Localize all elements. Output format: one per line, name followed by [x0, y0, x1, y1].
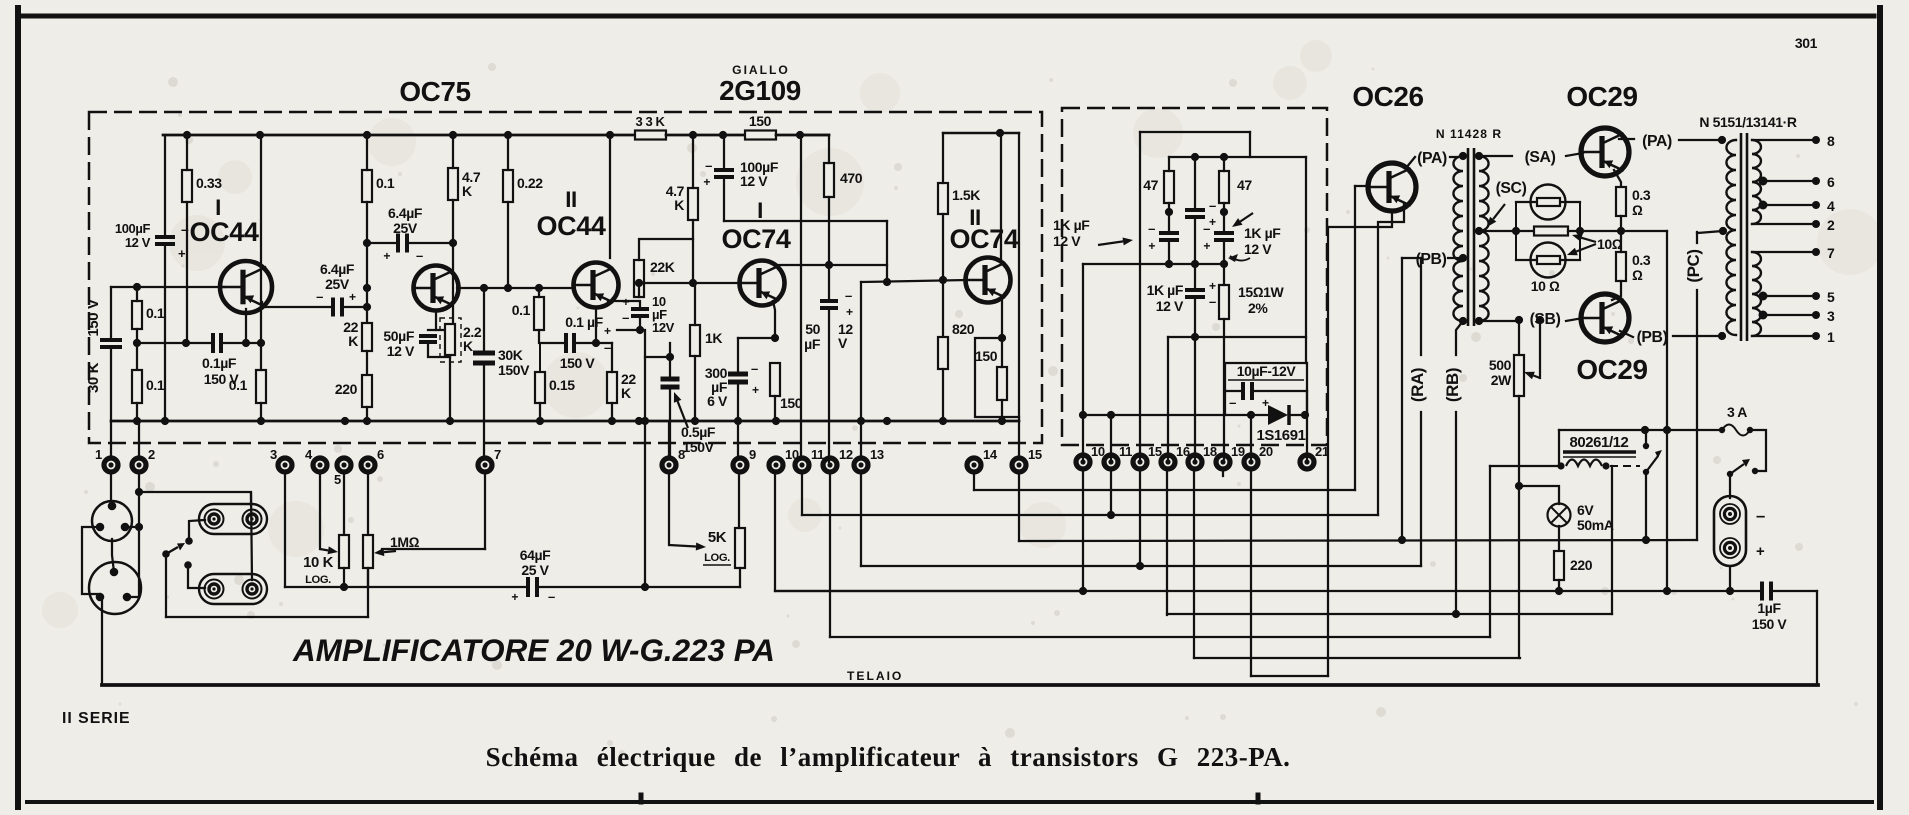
- potentiometer 5K LOG: [735, 528, 745, 568]
- junction dots on bottom rail: [133, 417, 1006, 425]
- wire t21 col: [1306, 391, 1308, 459]
- svg-text:2: 2: [1827, 217, 1835, 233]
- capacitor 6.4uF 25V coupling 1: [333, 298, 342, 317]
- capacitor 0.1uF 150V (OC44II): [566, 333, 574, 353]
- wire capA top: [1194, 157, 1196, 210]
- terminal 16: [1161, 444, 1190, 469]
- svg-text:–: –: [1203, 221, 1210, 236]
- resistor 0.1 third (stage1 right): [256, 370, 266, 403]
- wire t11 column up: [800, 135, 802, 459]
- wire 1K bottom: [694, 356, 696, 421]
- svg-text:LOG.: LOG.: [305, 574, 331, 586]
- svg-text:0.5µF: 0.5µF: [681, 424, 716, 440]
- resistor 220 lamp: [1554, 551, 1564, 580]
- wire switch pivot down: [165, 557, 167, 617]
- wire 100uF bottom to lower rail: [164, 245, 166, 421]
- svg-text:14: 14: [983, 447, 998, 462]
- wire 1K top: [694, 283, 696, 325]
- wire input base: [111, 286, 224, 288]
- wire OC44II collector column: [609, 135, 611, 258]
- svg-text:30 K: 30 K: [85, 362, 102, 393]
- wire 0.5uF link: [645, 356, 670, 358]
- wire OC44 I collector out: [262, 302, 333, 307]
- resistor 2.2K (OC75): [445, 324, 455, 355]
- resistor 0.3 upper: [1616, 187, 1626, 216]
- svg-text:1K: 1K: [705, 330, 722, 346]
- mains switch 1: [1643, 443, 1662, 475]
- capacitor 10uF 12V bias: [1243, 382, 1252, 400]
- potentiometer 500 2W: [1514, 355, 1524, 396]
- junction T1 secondary top: [1475, 152, 1483, 160]
- wire 0.1uF cap to 0.1 resistor col: [221, 342, 261, 344]
- svg-text:–: –: [622, 310, 629, 325]
- wire filter top line: [1140, 131, 1250, 133]
- wire rail right of 150: [776, 134, 829, 137]
- wire 5K bottom: [739, 568, 741, 587]
- paper texture: [42, 40, 1883, 628]
- wire 10uF cap right: [1252, 390, 1307, 392]
- wire t16 col down: [1166, 471, 1168, 615]
- wire 64uF to feedback column: [537, 586, 645, 588]
- wire OC75 collector to OC44II base: [457, 287, 573, 289]
- wire RA column lower: [1420, 412, 1422, 566]
- wire terminal1 to DIN1: [110, 471, 112, 506]
- terminal 15: [1012, 447, 1042, 472]
- junction RB on L615: [1452, 610, 1460, 618]
- junction dots on supply rail: [183, 131, 804, 139]
- wire 10uF node left: [617, 329, 640, 331]
- wire jack right bus: [251, 493, 252, 580]
- junction battery rail: [1726, 587, 1734, 595]
- svg-text:7: 7: [1827, 245, 1835, 261]
- svg-text:5K: 5K: [708, 530, 727, 546]
- svg-text:+: +: [1148, 239, 1155, 253]
- svg-text:0.1: 0.1: [229, 377, 248, 393]
- wire PC column lower: [1696, 290, 1698, 540]
- svg-text:–: –: [845, 288, 852, 303]
- wire 220 bottom: [366, 407, 368, 421]
- resistor 0.1 lower (stage1): [132, 370, 142, 403]
- wire 0.1 OC44II bottom: [539, 330, 566, 343]
- wire OC44II emitter down: [595, 307, 597, 343]
- wire DIN2 to chassis: [101, 601, 103, 685]
- svg-text:0.1: 0.1: [146, 377, 165, 393]
- resistor 4.7K (OC74I): [688, 188, 698, 220]
- wire SC tap to lamps: [1479, 230, 1516, 232]
- svg-text:+: +: [511, 590, 518, 604]
- wire DIN1 to DIN2: [112, 539, 114, 572]
- wire t11 down: [801, 471, 803, 515]
- wire PA to T2: [1679, 139, 1722, 141]
- junctions OC74I base: [635, 279, 697, 287]
- wire 22K lower bottom: [611, 403, 613, 421]
- lamp resistor block left rail: [1515, 202, 1517, 260]
- wire OC75 bias column upper: [366, 135, 368, 170]
- junction lamp feed: [1515, 482, 1523, 490]
- battery terminal minus: [1720, 504, 1740, 524]
- svg-text:–: –: [181, 221, 189, 237]
- svg-text:19: 19: [1231, 444, 1245, 459]
- wire coil left: [1490, 465, 1561, 467]
- lamp barretter upper: [1531, 185, 1566, 220]
- transformer T1 secondary winding: [1479, 156, 1489, 321]
- wire 1uF to corner: [1771, 590, 1817, 592]
- potentiometer 10K LOG: [339, 535, 349, 568]
- wire OC74II emitter down: [1001, 298, 1003, 338]
- output terminal dots: [1812, 136, 1820, 340]
- wire t7 to 1M wiper: [382, 548, 485, 550]
- junction feedback column base: [641, 583, 649, 591]
- wire 15ohm col down: [1223, 337, 1225, 459]
- svg-text:OC29: OC29: [1566, 81, 1637, 112]
- resistor 150 top: [745, 131, 776, 140]
- svg-text:+: +: [622, 295, 629, 309]
- wire OC74I base: [639, 282, 740, 284]
- svg-text:8: 8: [1827, 133, 1835, 149]
- junction mid rail 0.3: [1617, 227, 1625, 235]
- svg-text:13: 13: [870, 447, 884, 462]
- svg-text:N 11428 R: N 11428 R: [1436, 127, 1502, 141]
- transistor OC26: [1368, 163, 1416, 211]
- terminal 14: [967, 447, 998, 472]
- wire 100uF driver top: [723, 135, 725, 170]
- wire 0.33 bottom to node: [186, 202, 188, 343]
- svg-text:2: 2: [148, 447, 155, 462]
- phono jack pair 2 outline: [199, 574, 267, 604]
- wire coupling1 to OC75 base: [342, 306, 367, 308]
- wire fuse to switch2: [1750, 430, 1766, 471]
- junction collector 470 node: [825, 261, 833, 269]
- transformer T2 primary winding: [1726, 140, 1736, 335]
- wire input down to 30K cap: [110, 287, 112, 339]
- junction lamp right mid: [1576, 227, 1584, 235]
- capacitor 100uF 12V input stage: [155, 237, 175, 244]
- wire 22K lower top: [611, 343, 613, 372]
- svg-text:–: –: [316, 289, 323, 304]
- wire t4 down: [319, 471, 321, 549]
- capacitor 1uF 150V: [1762, 582, 1771, 601]
- svg-text:(PC): (PC): [1684, 249, 1703, 282]
- page bottom rule: [27, 800, 1872, 804]
- junction x887 base line: [883, 278, 891, 286]
- wire negative rail: [776, 590, 1762, 592]
- wire capA bottom: [1194, 217, 1196, 264]
- lamp barretter lower: [1531, 243, 1566, 278]
- DIN1 pins: [96, 502, 130, 532]
- svg-text:47: 47: [1143, 177, 1158, 193]
- svg-text:(PA): (PA): [1417, 150, 1447, 167]
- junction T1 secondary mid tap: [1475, 227, 1483, 235]
- wire t10b col down: [1082, 471, 1084, 591]
- resistor 0.33: [182, 170, 192, 202]
- wire OC26 collector to PA: [1406, 157, 1415, 168]
- wire t20 col down: [1250, 471, 1252, 676]
- resistor inside upper lamp: [1537, 198, 1560, 206]
- wire rail left end down to 100uF: [164, 135, 166, 236]
- wire t15 feed column: [1018, 133, 1020, 459]
- wire t12 down: [829, 471, 831, 637]
- svg-text:6: 6: [377, 447, 384, 462]
- wire coil left drop: [1489, 466, 1491, 637]
- wire 220 lamp bottom: [1558, 580, 1560, 591]
- arrow into 5K wiper: [669, 543, 706, 551]
- svg-text:II: II: [565, 187, 577, 212]
- wire t7 cap column lower: [483, 364, 485, 459]
- transistor OC44 II: [574, 263, 619, 308]
- wire tap 6: [1763, 180, 1813, 182]
- wire 15ohm top: [1223, 264, 1225, 285]
- wire 500 wiper feed: [1539, 320, 1541, 378]
- wire 0.1 OC44II top: [538, 288, 540, 297]
- wire filter right column: [1305, 157, 1307, 363]
- wire t18 col down: [1193, 471, 1195, 658]
- wire T1 primary bottom down: [1456, 321, 1463, 355]
- wire 47 left top: [1168, 157, 1170, 171]
- svg-text:(SC): (SC): [1496, 180, 1527, 197]
- wire DIN left bracket: [82, 527, 100, 594]
- wire battery to rail: [1729, 566, 1731, 591]
- wire OC26 base: [1355, 185, 1369, 187]
- transistor OC29 bottom: [1581, 294, 1629, 342]
- junction 10K bottom: [340, 583, 348, 591]
- wire capD bottom: [1194, 297, 1196, 337]
- wire OC29top emitter: [1614, 170, 1621, 187]
- svg-text:–: –: [1229, 395, 1236, 410]
- wire PB to T2: [1673, 335, 1722, 337]
- resistor 47 left: [1164, 171, 1174, 203]
- svg-text:N 5151/13141·R: N 5151/13141·R: [1699, 114, 1796, 130]
- junction dots negative rail: [1079, 587, 1087, 595]
- capacitor input 30K 150V: [100, 340, 122, 347]
- wire t11b col down: [1110, 471, 1112, 515]
- svg-text:7: 7: [494, 447, 501, 462]
- svg-text:64µF25 V: 64µF25 V: [520, 547, 551, 578]
- wire t15b col down: [1139, 471, 1141, 566]
- svg-text:(RB): (RB): [1443, 368, 1462, 402]
- svg-text:470: 470: [840, 170, 863, 186]
- wire PB column down: [1401, 258, 1403, 540]
- wire 0.15 top: [539, 343, 541, 372]
- mains switch 2: [1727, 459, 1758, 477]
- wire bus L637: [830, 636, 1490, 638]
- resistor 470: [824, 163, 834, 197]
- wire OC75 bias column mid: [366, 202, 368, 323]
- terminal 7: [478, 447, 501, 472]
- junctions filter second line: [1191, 153, 1228, 161]
- wire bus L615: [1167, 613, 1612, 615]
- svg-text:5: 5: [1827, 289, 1835, 305]
- underline 10uF-12V: [1228, 379, 1304, 381]
- svg-text:9: 9: [749, 447, 756, 462]
- wire 500 pot bottom: [1518, 396, 1520, 486]
- wire OC29top collector: [1619, 138, 1634, 140]
- svg-text:(RA): (RA): [1408, 368, 1427, 402]
- wire t5 to 10K top: [343, 471, 345, 535]
- wire 0.3 lower bottom: [1612, 281, 1621, 300]
- wire 10K bottom to bus: [343, 568, 345, 587]
- transistor OC44 I: [220, 261, 272, 313]
- wire subbox outline: [1225, 363, 1307, 415]
- junction feedback rail crossing: [641, 417, 649, 425]
- wire bus L490: [974, 489, 1355, 491]
- wire capC top: [1223, 203, 1225, 233]
- wire PC column upper: [1696, 232, 1698, 243]
- svg-text:AMPLIFICATORE 20 W-G.223 PA: AMPLIFICATORE 20 W-G.223 PA: [292, 633, 775, 668]
- junction filter bottom: [1191, 333, 1199, 341]
- wire RA column: [1420, 258, 1422, 355]
- diode 1S1691: [1268, 405, 1289, 425]
- arrow SC tap: [1487, 204, 1505, 227]
- junctions on 0.1uF node: [182, 339, 265, 347]
- transformer T1 core: [1468, 148, 1474, 326]
- terminal 12: [823, 447, 853, 472]
- svg-text:–: –: [416, 248, 423, 263]
- wire tap 7: [1754, 251, 1813, 253]
- wire tap 3: [1763, 314, 1813, 316]
- terminal 3: [270, 447, 292, 472]
- capacitor 1KuF 12V D: [1185, 290, 1205, 297]
- svg-text:+: +: [178, 246, 186, 261]
- svg-text:–: –: [548, 589, 555, 604]
- resistor 820: [938, 337, 948, 369]
- svg-text:4: 4: [305, 447, 313, 462]
- phono jack 2a: [205, 580, 224, 599]
- resistor 22K lower: [607, 372, 617, 403]
- resistor 47 right: [1219, 171, 1229, 203]
- wire 15ohm bottom: [1223, 319, 1225, 337]
- capacitor 100uF 12V (driver): [714, 170, 734, 177]
- resistor 0.1 upper (stage1): [132, 301, 142, 329]
- terminal 6: [361, 447, 384, 472]
- wire 0.15 bottom: [539, 403, 541, 421]
- wire base line to OC74II: [861, 280, 966, 282]
- terminal 10: [769, 447, 799, 472]
- pilot transformer coil 80261/12: [1566, 460, 1602, 467]
- transistor OC29 top: [1581, 128, 1629, 176]
- wire 22K bias bottom to base: [638, 283, 640, 297]
- junction OC75 bias/base: [363, 239, 371, 247]
- wire 150 OC74I bottom: [774, 396, 776, 421]
- svg-text:3 3 K: 3 3 K: [635, 114, 665, 129]
- junction t11b on L515: [1107, 511, 1115, 519]
- DIN connector 2: [89, 562, 141, 614]
- wire 47 right top: [1223, 157, 1225, 171]
- terminal 21: [1300, 444, 1329, 469]
- transformer T2 secondary upper: [1752, 140, 1761, 224]
- wire t13 column up: [860, 421, 862, 459]
- svg-text:150: 150: [780, 395, 803, 411]
- svg-text:OC26: OC26: [1352, 81, 1423, 112]
- svg-text:II SERIE: II SERIE: [62, 710, 131, 727]
- svg-text:6: 6: [1827, 174, 1835, 190]
- svg-text:10µF-12V: 10µF-12V: [1237, 363, 1297, 379]
- wire mid node to 0.1uF cap: [137, 342, 213, 344]
- svg-text:+: +: [1209, 279, 1216, 293]
- lamp block right rail: [1579, 202, 1581, 260]
- wire 0.1 lower to bottom rail: [136, 403, 138, 421]
- wire PB tap: [1402, 257, 1421, 259]
- wire 300uF top: [737, 338, 739, 374]
- wire t8 down: [668, 471, 670, 545]
- wire SA tap: [1479, 155, 1512, 157]
- wire 6.4uF bypass right: [407, 242, 453, 244]
- svg-text:10: 10: [1091, 444, 1105, 459]
- phono jack 1b: [243, 510, 262, 529]
- resistor 0.15: [535, 372, 545, 403]
- svg-text:1.5K: 1.5K: [952, 187, 980, 203]
- wire 50uF bottom link: [428, 342, 450, 357]
- wire 4.7K top: [452, 135, 454, 168]
- wire tap 4: [1763, 204, 1813, 206]
- wire 0.1 third to rail: [260, 343, 262, 370]
- battery terminal plus: [1720, 538, 1740, 558]
- bottom rule tick 2: [1256, 795, 1261, 802]
- svg-text:10 K: 10 K: [303, 555, 334, 571]
- wire SB tap: [1479, 320, 1521, 322]
- terminal 15b: [1133, 444, 1162, 469]
- wire mid rail OC29: [1621, 230, 1667, 232]
- wire volume bus to 64uF: [285, 586, 528, 588]
- junction PB col on L541: [1398, 536, 1406, 544]
- wire t14 down: [973, 471, 975, 490]
- svg-text:–: –: [1209, 198, 1216, 213]
- wire t6 column down: [367, 471, 369, 617]
- junction bias line: [1079, 411, 1255, 419]
- svg-text:(SB): (SB): [1530, 311, 1561, 328]
- wire switch contact A to jack1: [189, 520, 205, 541]
- junction T2 primary mid (PC): [1719, 227, 1727, 235]
- wire emitter node horizontal: [428, 329, 450, 331]
- bottom rule tick 1: [639, 795, 644, 802]
- terminal 2: [132, 447, 155, 472]
- junction mid node stage1: [133, 339, 141, 347]
- transformer T2 core: [1741, 133, 1747, 341]
- svg-text:150 V: 150 V: [85, 299, 102, 337]
- wire 1M bottom to bus: [367, 568, 369, 587]
- junction T2 top: [1718, 136, 1726, 144]
- junction feedback top: [636, 326, 644, 334]
- underline 80261/12 double: [1563, 452, 1636, 457]
- resistor 1K: [690, 325, 700, 356]
- wire bus L515: [802, 514, 1378, 516]
- wire 2.2K bottom: [449, 357, 451, 421]
- wire emitter node to 22K lower: [596, 342, 612, 344]
- wire 820 bottom: [942, 369, 944, 421]
- junction OC44II emitter: [592, 339, 600, 347]
- wire 500 pot top: [1518, 320, 1520, 355]
- wire 4.7K OC74I top: [692, 135, 694, 188]
- svg-text:0.22: 0.22: [517, 175, 543, 191]
- terminal 5: [334, 458, 351, 487]
- wire 470 bottom: [828, 197, 830, 300]
- dashed link coil to switch: [1610, 465, 1640, 467]
- junction switch1 on PC line: [1642, 536, 1650, 544]
- dashed enclosure box 1 (amplifier board): [89, 112, 1042, 443]
- svg-text:5002W: 5002W: [1489, 357, 1512, 388]
- transistor OC74 I: [740, 261, 785, 306]
- wire jack feed horizontal: [139, 492, 251, 505]
- wire DIN1 right pin stub: [125, 526, 139, 528]
- svg-text:1: 1: [1827, 329, 1835, 345]
- wire 0.3 lower top: [1620, 231, 1622, 252]
- wire volume bus right extension: [645, 586, 740, 588]
- terminal 11: [795, 447, 824, 472]
- junction OC75 base node: [363, 284, 371, 311]
- wire lamp feed: [1519, 486, 1559, 504]
- wire 0.22 top: [507, 135, 509, 170]
- junction SB at 1519: [1515, 316, 1523, 324]
- svg-text:15Ω1W: 15Ω1W: [1238, 284, 1285, 300]
